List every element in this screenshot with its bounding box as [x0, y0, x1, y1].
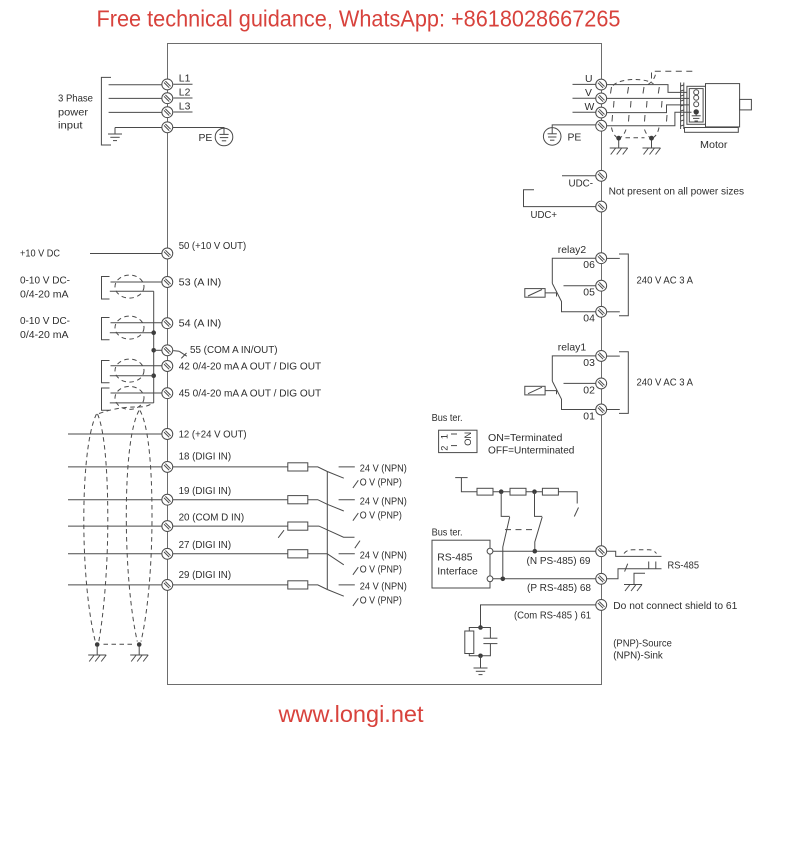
- svg-text:Free technical guidance, Whats: Free technical guidance, WhatsApp: +8618…: [97, 5, 621, 31]
- wire U to motor: [607, 85, 687, 93]
- bus switch blade 1: [503, 517, 510, 579]
- wire 42 return: [110, 375, 154, 377]
- blade 29: [327, 590, 344, 597]
- svg-text:19 (DIGI IN): 19 (DIGI IN): [179, 486, 232, 497]
- resistor 18: [288, 463, 308, 471]
- squiggle 55: [173, 351, 187, 359]
- label 3 Phase power input: [58, 93, 93, 131]
- digital cable loop A left: [84, 414, 97, 642]
- svg-text:240 V AC 3 A: 240 V AC 3 A: [637, 377, 694, 388]
- svg-text:O V (PNP): O V (PNP): [360, 564, 402, 575]
- junction RC top: [478, 625, 483, 630]
- RC resistor: [465, 628, 481, 656]
- wire to terminal 55: [154, 349, 162, 351]
- wire 18 after resistor: [308, 467, 328, 472]
- svg-text:Bus ter.: Bus ter.: [432, 527, 463, 538]
- wire terminal 50: [90, 253, 162, 255]
- label 0-10V range a: [20, 275, 70, 300]
- motor shaft: [740, 99, 752, 110]
- shield bottom arc right: [645, 130, 651, 138]
- svg-text:O V (PNP): O V (PNP): [360, 478, 402, 489]
- drain rake left: [610, 148, 628, 155]
- svg-text:02: 02: [583, 385, 595, 396]
- junction 68: [501, 577, 506, 582]
- junction 54 return: [151, 330, 156, 335]
- wire 69 external: [607, 551, 662, 556]
- relay1 coil link: [545, 391, 556, 395]
- junction 42 return: [151, 373, 156, 378]
- wire PE input: [115, 127, 162, 129]
- svg-text:ON: ON: [463, 432, 473, 446]
- wire 27 to resistor: [173, 553, 288, 555]
- relay1 blade: [552, 381, 596, 409]
- relay2 stub 04: [607, 311, 620, 313]
- terminator link 1: [493, 491, 510, 493]
- terminal 06: [596, 253, 607, 264]
- relay1 stub 03: [607, 355, 620, 357]
- svg-text:27 (DIGI IN): 27 (DIGI IN): [179, 540, 232, 551]
- terminal L3: [162, 107, 173, 118]
- terminal 54: [162, 318, 173, 329]
- svg-text:(PNP)-Source: (PNP)-Source: [613, 638, 672, 649]
- stub U: [573, 83, 596, 85]
- shield dash between drain dots: [626, 137, 645, 139]
- shield ellipse 45: [115, 386, 144, 409]
- terminator resistor 3: [542, 488, 558, 495]
- digital drain rake right: [130, 655, 148, 662]
- DIP switch box: [439, 430, 477, 452]
- svg-text:0-10 V DC-: 0-10 V DC-: [20, 275, 70, 286]
- wire terminal 27: [68, 553, 162, 555]
- terminal L2: [162, 93, 173, 104]
- svg-text:20 (COM D IN): 20 (COM D IN): [179, 512, 245, 523]
- wire UDC-: [562, 175, 596, 177]
- svg-text:54 (A IN): 54 (A IN): [179, 319, 222, 330]
- shield ellipse 42: [115, 359, 144, 382]
- terminal 04: [596, 306, 607, 317]
- relay2 bracket: [619, 254, 628, 316]
- terminal UDC+: [596, 201, 607, 212]
- svg-text:L2: L2: [179, 88, 191, 99]
- wire L2 input: [109, 97, 162, 99]
- svg-text:53 (A IN): 53 (A IN): [179, 277, 222, 288]
- svg-text:05: 05: [583, 288, 595, 299]
- svg-text:input: input: [58, 121, 83, 132]
- RC ground: [474, 668, 488, 675]
- cable bracket 54: [102, 318, 110, 340]
- wire 19 after resistor: [308, 500, 328, 505]
- svg-text:UDC-: UDC-: [569, 179, 594, 190]
- pair tick c: [655, 562, 657, 569]
- motor cable shield dashed top line: [652, 71, 697, 78]
- wire PE right to earth circle: [552, 125, 596, 128]
- terminal 02: [596, 378, 607, 389]
- relay1 stub 01: [607, 409, 620, 411]
- bus switch blade 2: [535, 517, 542, 551]
- terminal 45: [162, 388, 173, 399]
- drive enclosure frame: [168, 44, 602, 685]
- svg-text:42 0/4-20 mA A OUT / DIG OUT: 42 0/4-20 mA A OUT / DIG OUT: [179, 361, 322, 372]
- svg-text:24 V (NPN): 24 V (NPN): [360, 496, 407, 507]
- drain dot right: [649, 136, 654, 141]
- motor terminal box: [687, 86, 706, 124]
- wire terminal 12: [68, 433, 162, 435]
- wire 20 to resistor: [173, 525, 288, 527]
- svg-text:RS-485: RS-485: [437, 553, 472, 564]
- terminal 61: [596, 599, 607, 610]
- wire 45: [111, 392, 163, 394]
- terminal 42: [162, 361, 173, 372]
- wire L3 input: [109, 111, 162, 113]
- digital cable loop B right: [140, 411, 152, 642]
- svg-text:24 V (NPN): 24 V (NPN): [360, 464, 407, 475]
- terminal PE left: [162, 122, 173, 133]
- svg-text:relay1: relay1: [558, 343, 587, 354]
- terminator link 2: [526, 491, 542, 493]
- wire 27 after resistor: [308, 553, 328, 555]
- bus switch coupling dashes: [505, 529, 532, 531]
- wire L1 input: [109, 84, 162, 86]
- terminal PE right: [596, 120, 607, 131]
- digital drain stem left: [96, 647, 98, 656]
- slash 0V 29: [353, 598, 358, 606]
- label RS-485 interface: [437, 553, 478, 578]
- svg-text:+10 V DC: +10 V DC: [20, 248, 60, 259]
- terminal 20: [162, 521, 173, 532]
- svg-text:OFF=Unterminated: OFF=Unterminated: [488, 445, 575, 456]
- slash 0V 27: [353, 567, 358, 575]
- stub 24V 27: [339, 553, 355, 555]
- wire W to motor: [607, 105, 690, 113]
- terminal 68: [596, 573, 607, 584]
- wire terminal 19: [68, 499, 162, 501]
- svg-text:(Com RS-485 ) 61: (Com RS-485 ) 61: [514, 611, 591, 622]
- slash 0V 19: [353, 513, 358, 521]
- relay2 coil: [525, 289, 545, 298]
- blade 18: [327, 472, 344, 479]
- terminator stub bar: [455, 478, 477, 492]
- slash 20: [355, 541, 360, 549]
- shield rake 485: [624, 585, 642, 592]
- input earth stem: [114, 128, 116, 134]
- motor terminal box inner: [689, 89, 703, 122]
- wire 29 after resistor: [308, 585, 328, 590]
- svg-text:55 (COM A IN/OUT): 55 (COM A IN/OUT): [190, 345, 278, 356]
- svg-text:W: W: [585, 102, 595, 113]
- svg-text:www.longi.net: www.longi.net: [278, 701, 424, 727]
- relay1 NC wire: [552, 356, 596, 381]
- pin circle 69: [487, 548, 493, 554]
- svg-text:(P RS-485) 68: (P RS-485) 68: [527, 583, 591, 594]
- relay2 blade: [552, 283, 596, 311]
- terminal 05: [596, 280, 607, 291]
- terminal 29: [162, 579, 173, 590]
- wire 29 to resistor: [173, 584, 288, 586]
- stub L2: [173, 97, 192, 99]
- wire PE to earth circle: [173, 127, 224, 130]
- svg-text:Not present on all power sizes: Not present on all power sizes: [609, 186, 745, 197]
- wire 53: [111, 281, 163, 283]
- svg-text:L1: L1: [179, 74, 191, 85]
- svg-text:45 0/4-20 mA A OUT / DIG OUT: 45 0/4-20 mA A OUT / DIG OUT: [179, 389, 322, 400]
- stub V: [573, 97, 596, 99]
- svg-text:power: power: [58, 107, 89, 118]
- svg-text:Interface: Interface: [437, 567, 478, 578]
- svg-text:RS-485: RS-485: [668, 560, 700, 571]
- svg-text:V: V: [585, 88, 592, 99]
- relay1 NO wire: [564, 382, 596, 384]
- cable bracket 45: [102, 388, 110, 410]
- motor cable shield arc top: [613, 79, 654, 85]
- terminal 50: [162, 248, 173, 259]
- wire 45 return: [110, 402, 154, 404]
- svg-text:ON=Terminated: ON=Terminated: [488, 433, 563, 444]
- digital drain dot right: [137, 642, 142, 647]
- relay1 bracket: [619, 352, 628, 414]
- motor pin PE ground: [692, 115, 701, 121]
- digital drain stem right: [138, 647, 140, 656]
- wire terminal 20: [68, 525, 162, 527]
- RC ground stem: [480, 656, 482, 668]
- DIP tick 1: [451, 433, 457, 435]
- svg-text:24 V (NPN): 24 V (NPN): [360, 551, 407, 562]
- terminal UDC-: [596, 170, 607, 181]
- relay2 NO wire: [564, 285, 596, 287]
- PE earth circle right: [543, 128, 561, 146]
- svg-text:03: 03: [583, 358, 595, 369]
- svg-text:18 (DIGI IN): 18 (DIGI IN): [179, 452, 232, 463]
- svg-text:relay2: relay2: [558, 245, 587, 256]
- wire 53 return: [110, 290, 154, 292]
- terminal W: [596, 107, 607, 118]
- svg-text:04: 04: [583, 314, 595, 325]
- label 0-10V range b: [20, 316, 70, 341]
- terminal 01: [596, 404, 607, 415]
- digital cable loop B left: [126, 411, 139, 642]
- digital drain rake left: [88, 655, 106, 662]
- terminal U: [596, 79, 607, 90]
- wire 19 to resistor: [173, 499, 288, 501]
- shield ellipse 53: [115, 275, 144, 298]
- svg-text:O V (PNP): O V (PNP): [360, 510, 402, 521]
- wire terminal 18: [68, 466, 162, 468]
- pin circle 68: [487, 576, 493, 582]
- wire 61: [481, 605, 596, 628]
- terminal 12: [162, 429, 173, 440]
- cable bracket 42: [102, 361, 110, 383]
- shield bottom arc left: [612, 128, 618, 138]
- RC capacitor: [481, 628, 498, 656]
- svg-text:(NPN)-Sink: (NPN)-Sink: [613, 651, 663, 662]
- wire terminal 29: [68, 584, 162, 586]
- terminal 19: [162, 494, 173, 505]
- shield bottom arc right2: [653, 128, 659, 138]
- drain rake right: [643, 148, 661, 155]
- stub 24V 29: [339, 584, 355, 586]
- motor base: [685, 128, 739, 133]
- svg-text:29 (DIGI IN): 29 (DIGI IN): [179, 570, 232, 581]
- junction 55: [151, 348, 156, 353]
- stub L1: [173, 83, 192, 85]
- wire 68 external: [607, 569, 662, 579]
- shield ticks row1: [611, 87, 660, 94]
- relay2 coil link: [545, 293, 556, 297]
- motor cable shield arc rise: [648, 75, 656, 85]
- relay2 stub 06: [607, 257, 620, 259]
- drain dot left: [616, 136, 621, 141]
- svg-text:01: 01: [583, 411, 595, 422]
- terminal V: [596, 93, 607, 104]
- shield stub 485: [634, 573, 645, 584]
- motor pin 1: [694, 90, 699, 95]
- stub L3: [173, 111, 192, 113]
- blade 27: [327, 554, 344, 565]
- terminal 53: [162, 277, 173, 288]
- svg-text:24 V (NPN): 24 V (NPN): [360, 582, 407, 593]
- resistor 19: [288, 496, 308, 504]
- wire 54 return: [110, 332, 154, 334]
- wire 54: [111, 322, 163, 324]
- resistor 27: [288, 550, 308, 558]
- drain stem left: [618, 141, 620, 149]
- motor pin 3: [694, 102, 699, 107]
- shield ticks row2: [614, 101, 663, 108]
- svg-text:Motor: Motor: [700, 140, 728, 151]
- terminator resistor 2: [510, 488, 526, 495]
- wire 68: [493, 578, 596, 580]
- relay1 coil: [525, 386, 545, 395]
- wire UDC+: [524, 190, 596, 207]
- digital common bus: [326, 472, 328, 590]
- motor pin 2: [694, 95, 699, 100]
- wire V to motor: [607, 97, 690, 99]
- PE earth circle left: [215, 128, 233, 146]
- terminator right switch: [574, 508, 578, 517]
- terminal L1: [162, 79, 173, 90]
- terminal 18: [162, 461, 173, 472]
- pair tick b: [648, 562, 650, 569]
- EMC clamp bar: [681, 83, 684, 130]
- stub W: [573, 111, 596, 113]
- resistor 29: [288, 581, 308, 589]
- slash 0V 18: [353, 480, 358, 488]
- terminal 69: [596, 546, 607, 557]
- motor pin PE dot: [694, 109, 699, 114]
- digital drain dot left: [95, 642, 100, 647]
- svg-text:0/4-20 mA: 0/4-20 mA: [20, 289, 69, 300]
- junction 69: [533, 549, 538, 554]
- terminator junction 2: [532, 489, 537, 494]
- bus switch branch 2: [535, 492, 543, 517]
- RS-485 interface box: [432, 540, 490, 588]
- slash before resistor 20: [278, 530, 284, 538]
- digital drain dashed link: [104, 643, 133, 645]
- drain stem right: [651, 141, 653, 149]
- svg-text:U: U: [585, 74, 593, 85]
- shield hump 69: [624, 550, 657, 554]
- terminal 27: [162, 548, 173, 559]
- svg-text:50 (+10 V OUT): 50 (+10 V OUT): [179, 241, 247, 252]
- svg-text:06: 06: [583, 260, 595, 271]
- digital cable top dashed link: [99, 403, 153, 414]
- blade 19: [327, 504, 344, 511]
- 3 phase input bracket: [101, 77, 111, 145]
- wire 42: [111, 365, 163, 367]
- svg-text:3 Phase: 3 Phase: [58, 93, 93, 104]
- svg-text:(N PS-485) 69: (N PS-485) 69: [527, 556, 591, 567]
- svg-text:Bus ter.: Bus ter.: [432, 413, 463, 424]
- svg-text:L3: L3: [179, 101, 191, 112]
- terminator right drop: [558, 492, 577, 504]
- pair tick a: [625, 564, 628, 572]
- bus switch branch 1: [501, 492, 510, 517]
- wire 20 after resistor: [308, 526, 355, 537]
- svg-text:2: 2: [440, 446, 450, 451]
- stub 24V 19: [339, 499, 355, 501]
- svg-text:240 V AC 3 A: 240 V AC 3 A: [637, 276, 694, 287]
- wire PE to motor: [607, 112, 692, 126]
- common bus vertical: [153, 291, 155, 403]
- cable bracket 53: [102, 277, 110, 300]
- svg-text:PE: PE: [568, 132, 582, 143]
- relay2 NC wire: [552, 258, 596, 283]
- digital cable loop A right: [98, 414, 108, 642]
- resistor 20: [288, 522, 308, 530]
- shield ellipse 54: [115, 316, 144, 339]
- terminator resistor 1: [477, 488, 493, 495]
- input earth symbol: [108, 134, 122, 141]
- stub 24V 18: [339, 466, 355, 468]
- motor body: [706, 84, 740, 127]
- wire 18 to resistor: [173, 466, 288, 468]
- terminal 55: [162, 345, 173, 356]
- svg-text:PE: PE: [199, 133, 213, 144]
- shield bottom arc left2: [620, 130, 626, 138]
- junction RC bottom: [478, 654, 483, 659]
- shield ticks row3: [612, 115, 667, 122]
- svg-text:1: 1: [440, 434, 450, 439]
- terminal 03: [596, 350, 607, 361]
- DIP tick 2: [451, 445, 457, 447]
- svg-text:0-10 V DC-: 0-10 V DC-: [20, 316, 70, 327]
- svg-text:12 (+24 V OUT): 12 (+24 V OUT): [179, 430, 247, 441]
- svg-text:O V (PNP): O V (PNP): [360, 596, 402, 607]
- svg-text:0/4-20 mA: 0/4-20 mA: [20, 330, 69, 341]
- wire 69: [493, 550, 596, 552]
- svg-text:UDC+: UDC+: [531, 210, 558, 221]
- svg-text:Do not connect shield to 61: Do not connect shield to 61: [613, 601, 737, 612]
- terminator junction 1: [499, 489, 504, 494]
